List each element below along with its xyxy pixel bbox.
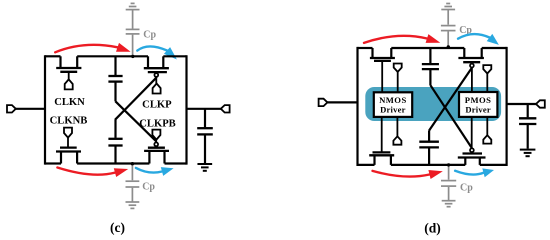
- port symbol CLKP gate (c): [153, 84, 161, 94]
- label NMOS Driver: [379, 95, 407, 114]
- label PMOS Driver: [465, 95, 492, 114]
- label Cp (top, circuit c): [143, 29, 156, 40]
- caption (c): [110, 220, 125, 235]
- wire top rail left segment (c): [45, 55, 61, 57]
- bootstrap capacitor (bottom middle, circuit c): [108, 120, 122, 164]
- svg-text:Cp: Cp: [142, 182, 155, 193]
- svg-text:Cp: Cp: [460, 182, 473, 193]
- transistor switch, gate CLKP (top-right, circuit c): [144, 56, 169, 83]
- junction dot bottom Cp (d): [447, 163, 450, 166]
- blue curved arrow (bottom right, circuit c): [136, 167, 174, 176]
- bootstrap capacitor (top middle, circuit d): [422, 48, 439, 85]
- wire bottom rail middle segment (c): [77, 162, 149, 164]
- transistor switch, gate CLKPB (bottom-right, circuit c): [144, 140, 169, 164]
- PMOS bubble (bottom-right, circuit d): [470, 148, 474, 152]
- blue curved arrow (top right, circuit d): [458, 34, 499, 45]
- NMOS switch transistor (top-left, circuit d): [370, 48, 395, 92]
- junction dot bottom Cp (c): [131, 162, 134, 165]
- NMOS Driver block (circuit d): [374, 92, 412, 117]
- wire top rail right segment (c): [163, 55, 186, 57]
- ground symbol (output load, circuit c): [197, 164, 212, 171]
- cross-coupled wire top-cap to CLKPB gate (c): [115, 101, 156, 141]
- caption (d): [424, 220, 441, 235]
- label CLKP: [142, 99, 172, 110]
- svg-text:Cp: Cp: [143, 29, 156, 40]
- label Cp (top, circuit d): [459, 25, 472, 36]
- wire right edge (c): [185, 55, 187, 164]
- svg-text:Driver: Driver: [465, 104, 491, 114]
- wire input (d): [328, 101, 358, 103]
- cross-coupled wire top-cap to bottom PMOS gate (d): [430, 85, 472, 148]
- wire bottom rail middle segment (d): [391, 164, 465, 166]
- wire bottom rail left segment (d): [358, 164, 375, 166]
- bootstrap capacitor (top middle, circuit c): [108, 56, 122, 101]
- red curved arrow (top left, circuit d): [364, 34, 440, 43]
- PMOS bubble CLKPB (c): [154, 142, 158, 146]
- transistor switch, gate CLKNB (bottom-left, circuit c): [56, 138, 81, 164]
- svg-text:CLKN: CLKN: [54, 97, 85, 108]
- load capacitor (output, circuit d): [519, 104, 536, 149]
- parasitic capacitor Cp (top, circuit d) with inverted ground symbol: [441, 4, 456, 47]
- blue curved arrow (top right, circuit c): [137, 46, 177, 59]
- clock port symbol into PMOS driver (bottom, circuit d): [483, 117, 491, 144]
- load capacitor (output, circuit c): [197, 109, 213, 163]
- PMOS switch transistor (top-right, circuit d): [458, 48, 484, 92]
- port symbol CLKNB gate (c): [64, 128, 72, 138]
- wire input (c): [16, 108, 46, 110]
- PMOS bubble (top-right, circuit d): [470, 64, 474, 68]
- PMOS Driver block (circuit d): [459, 92, 497, 117]
- label Cp (bottom, circuit c): [142, 182, 155, 193]
- input port symbol (c): [7, 105, 16, 112]
- label CLKNB: [50, 115, 88, 126]
- transistor switch, gate CLKN (top-left, circuit c): [56, 56, 81, 80]
- output port symbol (d): [536, 100, 545, 107]
- wire bottom rail left segment (c): [45, 162, 61, 164]
- junction dot top Cp (c): [131, 55, 134, 58]
- highlight band for gate drivers (circuit d): [365, 87, 501, 121]
- cross-coupled wire bottom-cap to top PMOS gate (d): [429, 68, 472, 131]
- bootstrap capacitor (bottom middle, circuit d): [419, 130, 439, 165]
- wire left edge (c): [44, 55, 46, 164]
- wire top rail left segment (d): [358, 47, 373, 49]
- wire bottom rail right segment (d): [480, 164, 507, 166]
- parasitic capacitor Cp (bottom, circuit c) with ground symbol: [126, 164, 140, 208]
- svg-text:Driver: Driver: [380, 104, 406, 114]
- wire left edge (d): [356, 47, 358, 166]
- wire top rail middle segment (c): [77, 55, 148, 57]
- label CLKN: [54, 97, 85, 108]
- clock port symbol into PMOS driver (top, circuit d): [483, 65, 491, 92]
- NMOS switch transistor (bottom-left, circuit d): [369, 117, 394, 165]
- port symbol CLKPB gate (c): [152, 130, 160, 140]
- wire bottom rail right segment (c): [165, 162, 187, 164]
- svg-text:(c): (c): [110, 220, 125, 235]
- wire right edge (d): [506, 47, 508, 166]
- parasitic capacitor Cp (bottom, circuit d) with ground symbol: [441, 165, 456, 207]
- label CLKPB: [139, 118, 176, 129]
- wire top rail right segment (d): [482, 47, 507, 49]
- wire top rail middle segment (d): [391, 47, 464, 49]
- junction dot top Cp (d): [447, 45, 450, 48]
- input port symbol (d): [319, 99, 328, 106]
- parasitic capacitor Cp (top, circuit c) with inverted ground symbol: [126, 3, 140, 55]
- ground symbol (output load, circuit d): [520, 150, 536, 157]
- clock port symbol into NMOS driver (bottom, circuit d): [393, 117, 401, 145]
- red curved arrow (bottom left, circuit c): [57, 168, 128, 178]
- wire output (d): [507, 103, 538, 105]
- clock port symbol into NMOS driver (top, circuit d): [394, 64, 402, 93]
- red curved arrow (top left, circuit c): [55, 43, 130, 52]
- svg-text:(d): (d): [424, 220, 441, 235]
- PMOS switch transistor (bottom-right, circuit d): [458, 117, 486, 165]
- red curved arrow (bottom left, circuit d): [373, 170, 443, 179]
- output port symbol (c): [221, 105, 230, 112]
- blue curved arrow (bottom right, circuit d): [455, 168, 494, 177]
- svg-text:CLKPB: CLKPB: [139, 118, 176, 129]
- port symbol CLKN gate (c): [65, 79, 73, 89]
- cross-coupled wire bottom-cap to CLKP gate (c): [115, 78, 156, 120]
- svg-text:CLKP: CLKP: [142, 99, 172, 110]
- wire output (c): [187, 108, 221, 110]
- label Cp (bottom, circuit d): [460, 182, 473, 193]
- svg-text:CLKNB: CLKNB: [50, 115, 88, 126]
- PMOS bubble CLKP (c): [154, 73, 158, 77]
